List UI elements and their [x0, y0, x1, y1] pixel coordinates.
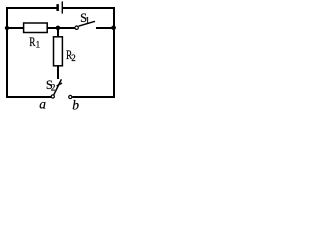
- svg-text:1: 1: [36, 40, 41, 50]
- switch S1 label: [80, 11, 90, 26]
- junction on right border: [111, 26, 116, 31]
- wire: bottom-right segment: [72, 96, 115, 98]
- battery cell: [56, 1, 63, 13]
- wire: top-left battery lead: [6, 7, 57, 9]
- node a contact circle: [51, 95, 54, 98]
- svg-text:2: 2: [51, 82, 56, 92]
- junction node at R2 top: [56, 26, 61, 31]
- resistor R1 label: [29, 35, 40, 50]
- node a label: [39, 96, 46, 111]
- junction on left border: [5, 26, 9, 30]
- resistor R2 label: [66, 48, 76, 63]
- svg-text:b: b: [72, 98, 79, 113]
- svg-text:a: a: [39, 96, 46, 111]
- resistor R1: [24, 23, 48, 33]
- resistor R2: [54, 37, 63, 66]
- switch S2 label: [46, 78, 56, 93]
- switch S1 lever: [78, 21, 95, 26]
- wire: R1 branch from left border: [6, 27, 24, 29]
- wire: right border: [113, 7, 115, 98]
- wire: bottom-left segment: [6, 96, 51, 98]
- svg-text:1: 1: [85, 15, 90, 25]
- switch S2 lever barb: [57, 83, 62, 86]
- wire: stub below R2: [57, 66, 59, 80]
- wire: S1 to right border: [96, 27, 114, 29]
- switch S1 contact circle: [75, 26, 78, 29]
- node b label: [72, 98, 79, 113]
- switch S2 lever: [54, 79, 62, 95]
- wire: left border: [6, 7, 8, 98]
- wire: top-right battery lead: [63, 7, 115, 9]
- wire: R1 to S1: [47, 27, 75, 29]
- node b contact circle: [69, 95, 72, 98]
- wire: stub from junction to R2: [57, 27, 59, 38]
- svg-text:2: 2: [71, 53, 76, 63]
